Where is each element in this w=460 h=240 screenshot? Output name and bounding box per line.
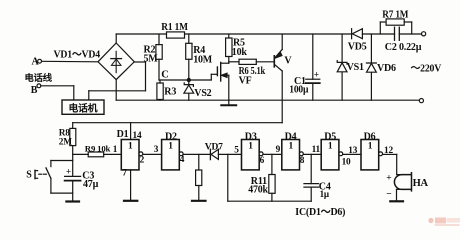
svg-text:2M: 2M (59, 137, 72, 147)
svg-text:5M: 5M (144, 54, 159, 65)
svg-text:～220V: ～220V (411, 64, 442, 75)
svg-text:100µ: 100µ (289, 84, 308, 95)
svg-text:R7 1M: R7 1M (382, 9, 409, 20)
svg-text:A: A (32, 56, 40, 67)
svg-text:10: 10 (342, 157, 351, 167)
svg-text:1: 1 (368, 141, 373, 151)
svg-text:4: 4 (180, 155, 185, 165)
svg-text:10k: 10k (232, 47, 248, 58)
svg-text:V: V (284, 56, 292, 67)
svg-text:C: C (161, 70, 168, 81)
svg-text:7: 7 (122, 169, 127, 179)
svg-text:C2 0.22µ: C2 0.22µ (385, 42, 422, 53)
svg-text:D1: D1 (117, 129, 129, 140)
svg-text:10M: 10M (193, 55, 213, 66)
svg-text:6: 6 (260, 156, 265, 166)
svg-text:1: 1 (248, 141, 253, 151)
svg-text:470k: 470k (248, 184, 268, 195)
svg-text:1: 1 (289, 141, 294, 151)
svg-text:3: 3 (154, 145, 159, 155)
svg-text:+: + (66, 166, 71, 176)
svg-text:+: + (386, 174, 391, 184)
svg-text:5: 5 (234, 146, 239, 156)
svg-text:13: 13 (348, 146, 357, 156)
svg-text:1: 1 (113, 145, 118, 155)
svg-text:VF: VF (239, 75, 252, 86)
svg-text:12: 12 (384, 146, 393, 156)
svg-text:2: 2 (140, 155, 145, 165)
svg-text:VD5: VD5 (348, 41, 367, 52)
svg-text:HA: HA (413, 178, 429, 189)
svg-text:VS2: VS2 (194, 88, 211, 99)
svg-text:1: 1 (328, 141, 333, 151)
svg-text:1µ: 1µ (320, 189, 330, 199)
svg-text:1: 1 (128, 141, 133, 151)
svg-text:IC(D1～D6): IC(D1～D6) (295, 207, 346, 218)
svg-text:S: S (26, 170, 32, 181)
svg-text:+: + (314, 69, 319, 79)
svg-text:9: 9 (276, 145, 281, 155)
svg-text:14: 14 (133, 131, 142, 141)
svg-text:VD7: VD7 (205, 142, 223, 152)
svg-text:R1 1M: R1 1M (161, 22, 188, 33)
svg-text:VD1～VD4: VD1～VD4 (54, 50, 101, 61)
svg-text:电话机: 电话机 (69, 102, 98, 115)
svg-text:B: B (31, 85, 38, 96)
svg-text:VS1: VS1 (347, 62, 364, 73)
svg-text:8: 8 (300, 156, 305, 166)
svg-text:VD6: VD6 (377, 63, 396, 74)
svg-text:11: 11 (312, 145, 321, 155)
svg-text:47µ: 47µ (83, 179, 99, 190)
svg-text:R9 10k: R9 10k (85, 143, 111, 153)
svg-text:−: − (386, 189, 391, 199)
svg-text:电话线: 电话线 (25, 72, 53, 84)
svg-text:R3: R3 (164, 86, 176, 97)
svg-text:1: 1 (168, 141, 173, 151)
